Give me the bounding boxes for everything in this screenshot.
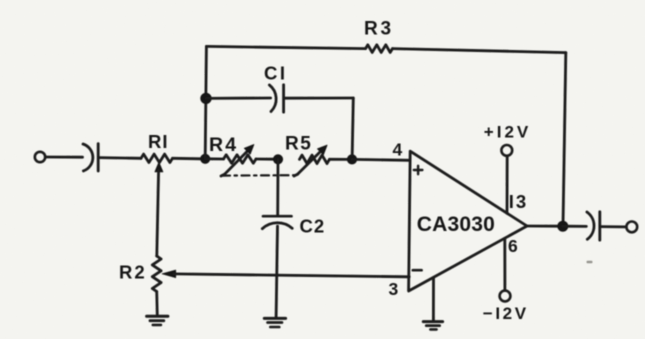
resistor R3: [366, 45, 393, 53]
capacitor C1 curved plate: [269, 85, 276, 112]
wire node D to C1: [206, 97, 271, 100]
node C junction R5/C1/pin4: [347, 155, 356, 164]
svg-text:R5: R5: [285, 134, 312, 155]
wire C1 branch down to node C: [352, 98, 353, 155]
op-amp U1 CA3030 triangle: [409, 151, 527, 291]
node D C1 tap on feedback branch: [201, 93, 211, 103]
wire C2 down to ground: [276, 226, 277, 318]
wire R3 to right corner: [393, 49, 566, 53]
R5 wiper arrow shaft: [298, 151, 322, 175]
op-amp inverting - sign: [413, 269, 422, 272]
capacitor C2 curved plate: [262, 223, 292, 229]
svg-text:3: 3: [389, 279, 399, 299]
R4 wiper arrow shaft: [225, 150, 249, 174]
svg-text:−I2V: −I2V: [483, 304, 529, 323]
svg-text:R2: R2: [119, 262, 147, 283]
svg-text:R3: R3: [364, 19, 394, 40]
-12V terminal: [500, 291, 511, 302]
capacitor Cin flat plate: [97, 144, 100, 171]
wire right vertical down to output node: [563, 53, 566, 226]
node B junction R4/R5/C2: [273, 155, 282, 164]
node E output junction: [558, 221, 568, 231]
ground (below R2): [147, 316, 168, 325]
wire C1 to right corner of C1 branch: [284, 97, 353, 100]
ground (op-amp): [423, 322, 442, 330]
svg-text:C2: C2: [300, 215, 326, 236]
svg-text:CI: CI: [264, 63, 288, 84]
wire node A to R4: [205, 157, 223, 160]
svg-text:RI: RI: [148, 131, 169, 152]
wire input terminal to input capacitor: [46, 156, 83, 159]
resistor R1 (potentiometer body): [141, 154, 173, 162]
wire node B down to C2: [276, 159, 279, 215]
wire output node to Cout: [563, 225, 587, 228]
ground (below C2): [264, 318, 285, 327]
ganged-control dash-dot link R4..R5: [221, 174, 225, 176]
wire R2 to ground: [155, 292, 158, 317]
R5 wiper arrowhead: [318, 145, 327, 154]
node A junction R1/R4/C1-branch: [201, 154, 210, 163]
svg-text:CA3030: CA3030: [417, 213, 495, 236]
wire -12V to pin 6: [503, 238, 506, 290]
capacitor C1 flat plate: [282, 85, 285, 112]
R1 wiper arrowhead (points up at R1): [155, 162, 163, 171]
output terminal: [626, 222, 637, 233]
wire +12V to pin 13: [506, 156, 509, 213]
input terminal: [35, 152, 45, 162]
svg-text:4: 4: [393, 140, 403, 160]
scan speck (decorative): [587, 261, 593, 263]
+12V terminal: [501, 145, 512, 156]
wire op-amp output to output node: [527, 225, 559, 228]
wire Cin to R1: [99, 156, 141, 159]
svg-text:I3: I3: [509, 191, 528, 212]
R2 wiper arrowhead (points left at R2): [162, 270, 175, 277]
wire top left segment to R3: [206, 46, 365, 48]
resistor R2 (potentiometer body, vertical): [152, 256, 161, 292]
svg-text:6: 6: [508, 236, 518, 256]
R4 wiper arrowhead: [244, 145, 253, 154]
svg-text:R4: R4: [209, 134, 238, 156]
capacitor C2 flat plate: [263, 215, 292, 218]
wire Cout to output terminal: [600, 225, 626, 228]
wire R2 wiper to op-amp pin 3: [174, 274, 410, 277]
R1 wiper shaft down to R2: [157, 170, 159, 256]
wire op-amp ground stub: [432, 278, 435, 321]
capacitor Cout curved plate: [587, 212, 594, 239]
op-amp noninverting + sign: [414, 166, 423, 174]
capacitor Cin (input coupling, curved plate): [83, 144, 93, 171]
wire R1 to node A: [173, 157, 202, 160]
wire R5 to node C: [330, 158, 348, 161]
svg-text:+I2V: +I2V: [484, 122, 531, 141]
wire R4 to node B: [256, 158, 274, 161]
wire node C to op-amp pin 4: [352, 158, 410, 162]
resistor R5 (variable, body): [300, 155, 330, 163]
wire vertical feedback branch (node A up to R3 wire): [205, 46, 206, 158]
capacitor Cout flat plate: [598, 212, 601, 240]
resistor R4 (variable, body): [224, 155, 257, 163]
